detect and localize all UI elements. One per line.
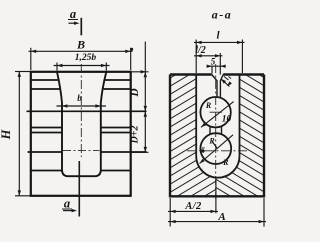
svg-text:l: l [216, 30, 220, 42]
dimension A/2 [168, 178, 218, 227]
cavity line y89 left [31, 88, 60, 90]
dimension 5 (sprue) [208, 66, 226, 73]
block outline [31, 72, 131, 196]
dimension b [57, 105, 107, 107]
svg-text:5: 5 [211, 57, 216, 67]
svg-text:H: H [0, 128, 13, 140]
cavity line y127.5 left [31, 127, 62, 129]
centerline vertical of slot [63, 64, 100, 157]
svg-text:1,25b: 1,25b [75, 53, 97, 63]
dimension l/2 [194, 53, 223, 75]
svg-text:b: b [77, 93, 82, 103]
svg-text:B: B [76, 38, 85, 52]
cavity line y80 left [31, 79, 59, 81]
cavity line y80 right [105, 79, 131, 81]
mid parting line y111 [27, 110, 147, 112]
leader R and 10 (upper cavity) [201, 102, 234, 128]
cavity line y132.5 right [101, 132, 131, 134]
lower ball cavity [200, 133, 231, 164]
svg-text:10: 10 [222, 115, 232, 125]
svg-text:A/2: A/2 [184, 201, 202, 212]
dimension 1.25b [54, 63, 110, 71]
dimension A [168, 198, 266, 227]
neck between cavities [209, 126, 211, 135]
svg-text:a: a [70, 7, 76, 21]
cavity line y89 right [104, 88, 131, 90]
slot with flared mouth [57, 72, 106, 176]
cavity bottom line y152 [28, 151, 63, 153]
svg-text:a-a: a-a [212, 8, 233, 22]
slot U bottom [196, 156, 239, 178]
svg-text:D+2: D+2 [129, 126, 140, 145]
centerlines of section [187, 64, 247, 199]
hatched left half [170, 75, 264, 197]
block outline (top edge with sprue gap) [170, 75, 264, 197]
dimension H [15, 72, 30, 196]
cavity line y132.5 left [31, 132, 62, 134]
leader R (lower cavity) [200, 135, 234, 164]
sprue funnel [212, 75, 217, 98]
svg-text:a: a [64, 197, 70, 211]
svg-text:R: R [205, 101, 212, 110]
dimension B [29, 48, 133, 70]
centerline horizontal cross [63, 150, 100, 152]
svg-text:l/2: l/2 [195, 45, 206, 56]
dimension D / D+2 [131, 42, 149, 153]
dimension l [194, 40, 245, 74]
svg-text:A: A [217, 211, 225, 223]
top squiggle marks near sprue [221, 77, 231, 87]
upper ball cavity [200, 97, 230, 127]
hatched right half [170, 75, 264, 197]
slot right wall [239, 75, 241, 157]
svg-text:R: R [222, 158, 229, 167]
slot shoulder line y170.5 [31, 170, 62, 172]
slot left wall [195, 75, 197, 157]
cavity line y127.5 right [101, 127, 131, 129]
svg-text:D: D [129, 88, 141, 98]
